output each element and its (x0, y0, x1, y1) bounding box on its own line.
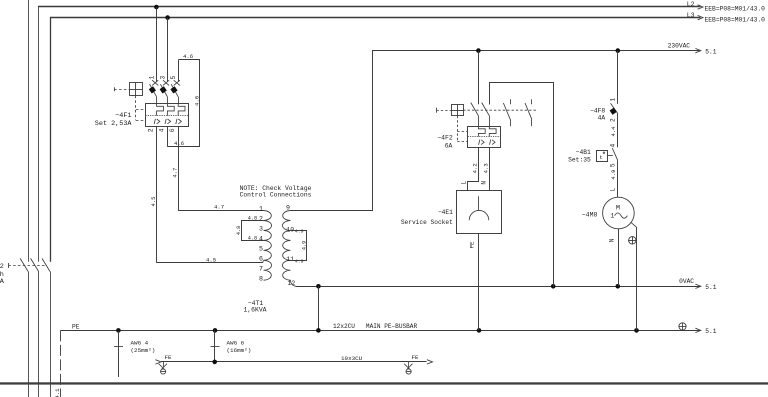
svg-text:Set 2,53A: Set 2,53A (95, 120, 133, 128)
svg-text:6A: 6A (445, 142, 453, 149)
svg-text:4.9: 4.9 (295, 258, 304, 264)
svg-text:10: 10 (286, 226, 294, 233)
svg-text:5: 5 (610, 163, 617, 167)
svg-text:2: 2 (259, 216, 263, 223)
svg-text:230VAC: 230VAC (668, 43, 691, 50)
svg-text:N: N (480, 181, 487, 185)
svg-text:4.4: 4.4 (610, 126, 617, 137)
svg-text:FE: FE (165, 354, 173, 361)
svg-text:1: 1 (149, 76, 156, 80)
svg-text:1: 1 (610, 98, 617, 102)
svg-text:4: 4 (259, 236, 263, 243)
svg-text:−4F8: −4F8 (590, 108, 605, 115)
svg-text:−4M8: −4M8 (582, 211, 598, 218)
svg-text:−4E1: −4E1 (438, 209, 453, 216)
svg-text:(16mm²): (16mm²) (227, 347, 252, 354)
svg-text:L3: L3 (687, 12, 695, 19)
svg-text:L2: L2 (687, 1, 695, 8)
svg-text:11: 11 (286, 256, 294, 263)
svg-text:Control Connections: Control Connections (240, 192, 312, 199)
svg-text:−4F2: −4F2 (437, 135, 453, 142)
svg-text:M: M (616, 204, 620, 212)
svg-text:6: 6 (169, 128, 176, 132)
svg-text:5.1: 5.1 (705, 328, 716, 335)
svg-text:AWG 4: AWG 4 (131, 340, 149, 347)
svg-text:0VAC: 0VAC (679, 278, 694, 285)
svg-text:t: t (599, 154, 602, 161)
svg-text:9: 9 (286, 205, 290, 212)
svg-text:PE: PE (468, 241, 475, 249)
svg-text:2: 2 (610, 118, 617, 122)
svg-text:5.1: 5.1 (705, 48, 716, 55)
svg-text:2: 2 (0, 263, 4, 271)
svg-text:Service Socket: Service Socket (401, 219, 453, 226)
svg-text:4.9: 4.9 (610, 170, 617, 180)
svg-text:3: 3 (259, 226, 263, 233)
svg-text:3: 3 (159, 76, 166, 80)
svg-text:4.7: 4.7 (214, 203, 224, 210)
svg-text:N: N (608, 238, 615, 242)
svg-text:1: 1 (610, 212, 614, 219)
svg-text:4.5: 4.5 (150, 196, 157, 206)
svg-text:6: 6 (259, 255, 263, 262)
svg-text:EEB=P08=M01/43.0: EEB=P08=M01/43.0 (705, 6, 766, 13)
svg-text:4: 4 (610, 143, 617, 147)
svg-text:5: 5 (259, 245, 263, 252)
svg-text:5: 5 (170, 76, 177, 80)
svg-text:AWG 6: AWG 6 (227, 340, 245, 347)
svg-text:4: 4 (158, 128, 165, 132)
svg-text:2: 2 (148, 128, 155, 132)
svg-text:4.8: 4.8 (236, 226, 242, 235)
svg-text:4.6: 4.6 (174, 140, 184, 147)
svg-text:L: L (461, 181, 468, 185)
svg-text:1,6KVA: 1,6KVA (243, 307, 266, 314)
svg-text:4.6: 4.6 (183, 53, 193, 60)
svg-text:5.1: 5.1 (705, 284, 716, 291)
svg-text:12x2CU MAIN PE–BUSBAR: 12x2CU MAIN PE–BUSBAR (333, 323, 417, 330)
svg-text:L: L (610, 188, 617, 192)
svg-text:8: 8 (259, 275, 263, 282)
svg-text:FE: FE (412, 354, 420, 361)
svg-text:4A: 4A (598, 115, 606, 122)
svg-text:4.3: 4.3 (483, 163, 490, 173)
svg-text:7: 7 (259, 265, 263, 272)
svg-text:4.5: 4.5 (206, 256, 216, 263)
svg-text:4.9: 4.9 (301, 241, 307, 250)
svg-text:4.6: 4.6 (193, 96, 200, 106)
svg-text:4.1: 4.1 (54, 388, 61, 397)
svg-text:4.9: 4.9 (295, 228, 304, 234)
svg-text:10x3CU: 10x3CU (341, 355, 363, 362)
svg-text:PE: PE (72, 323, 80, 330)
svg-text:4.7: 4.7 (171, 168, 178, 178)
svg-text:4.8: 4.8 (248, 236, 257, 242)
svg-text:EEB=P08=M01/43.0: EEB=P08=M01/43.0 (705, 16, 766, 23)
svg-text:4.2: 4.2 (471, 163, 478, 173)
svg-text:−4B1: −4B1 (576, 149, 591, 156)
svg-text:−4F1: −4F1 (115, 112, 131, 120)
svg-text:1: 1 (259, 206, 263, 213)
svg-text:Set:35: Set:35 (568, 156, 591, 163)
svg-text:4.8: 4.8 (248, 216, 257, 222)
svg-text:(25mm²): (25mm²) (131, 347, 156, 354)
